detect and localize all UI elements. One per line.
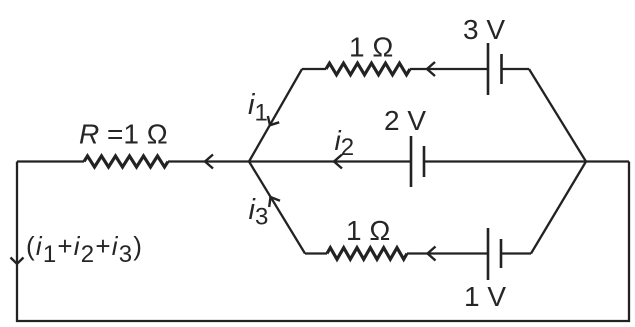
svg-text:1 V: 1 V: [464, 281, 506, 312]
battery 3V short plate: [500, 54, 503, 84]
wire: middle branch node A to battery 2V: [249, 160, 411, 162]
battery 2V long plate: [410, 136, 413, 187]
battery 2V short plate: [423, 146, 426, 177]
current arrow i2 on middle branch: [334, 155, 342, 169]
svg-text:R =1 Ω: R =1 Ω: [79, 119, 168, 150]
wire: resistor R to node A: [168, 160, 249, 162]
svg-text:i2: i2: [335, 125, 355, 161]
wire: bottom resistor to battery 1V: [407, 252, 488, 254]
resistor R1 (R = 1 ohm) zigzag: [84, 156, 168, 167]
current arrow on bottom branch: [428, 247, 436, 261]
svg-text:2 V: 2 V: [384, 105, 426, 136]
svg-text:1 Ω: 1 Ω: [346, 215, 390, 246]
wire: bottom branch left lead: [305, 252, 327, 254]
svg-text:1 Ω: 1 Ω: [349, 32, 393, 63]
current arrow i3 on diagonal: [269, 197, 280, 207]
svg-text:3 V: 3 V: [463, 14, 505, 45]
wire: battery 3V to top-right diagonal: [502, 68, 530, 70]
resistor 1 ohm (top branch) zigzag: [326, 63, 410, 75]
wire: outer loop (left edge, bottom edge, right edge): [17, 162, 629, 322]
battery 3V long plate: [487, 43, 490, 95]
wire: battery 1V to bottom-right diagonal: [501, 252, 531, 254]
wire: diagonal down to node B: [529, 69, 586, 162]
current arrow (i1+i2+i3) on left horizontal wire: [205, 155, 213, 169]
wire: diagonal up to node B: [531, 162, 586, 254]
wire: top resistor to battery 3V: [410, 68, 488, 70]
svg-text:i3: i3: [249, 194, 269, 231]
wire: left horizontal from edge to resistor R: [17, 160, 84, 162]
svg-text:(i1+i2+i3): (i1+i2+i3): [26, 231, 143, 268]
current arrow on top branch: [427, 62, 435, 76]
current arrow i1 on diagonal: [268, 116, 279, 125]
current arrow (i1+i2+i3) down on left edge: [11, 258, 24, 264]
wire: node A diagonal up to top branch: [249, 69, 302, 162]
wire: node A diagonal down to bottom branch: [249, 162, 305, 254]
wire: top branch left lead: [302, 68, 326, 70]
svg-text:i1: i1: [248, 89, 268, 127]
battery 1V long plate: [487, 228, 490, 280]
resistor 1 ohm (bottom branch) zigzag: [327, 248, 407, 260]
battery 1V short plate: [500, 239, 503, 268]
wire: battery 2V through node B to right edge: [424, 160, 629, 162]
